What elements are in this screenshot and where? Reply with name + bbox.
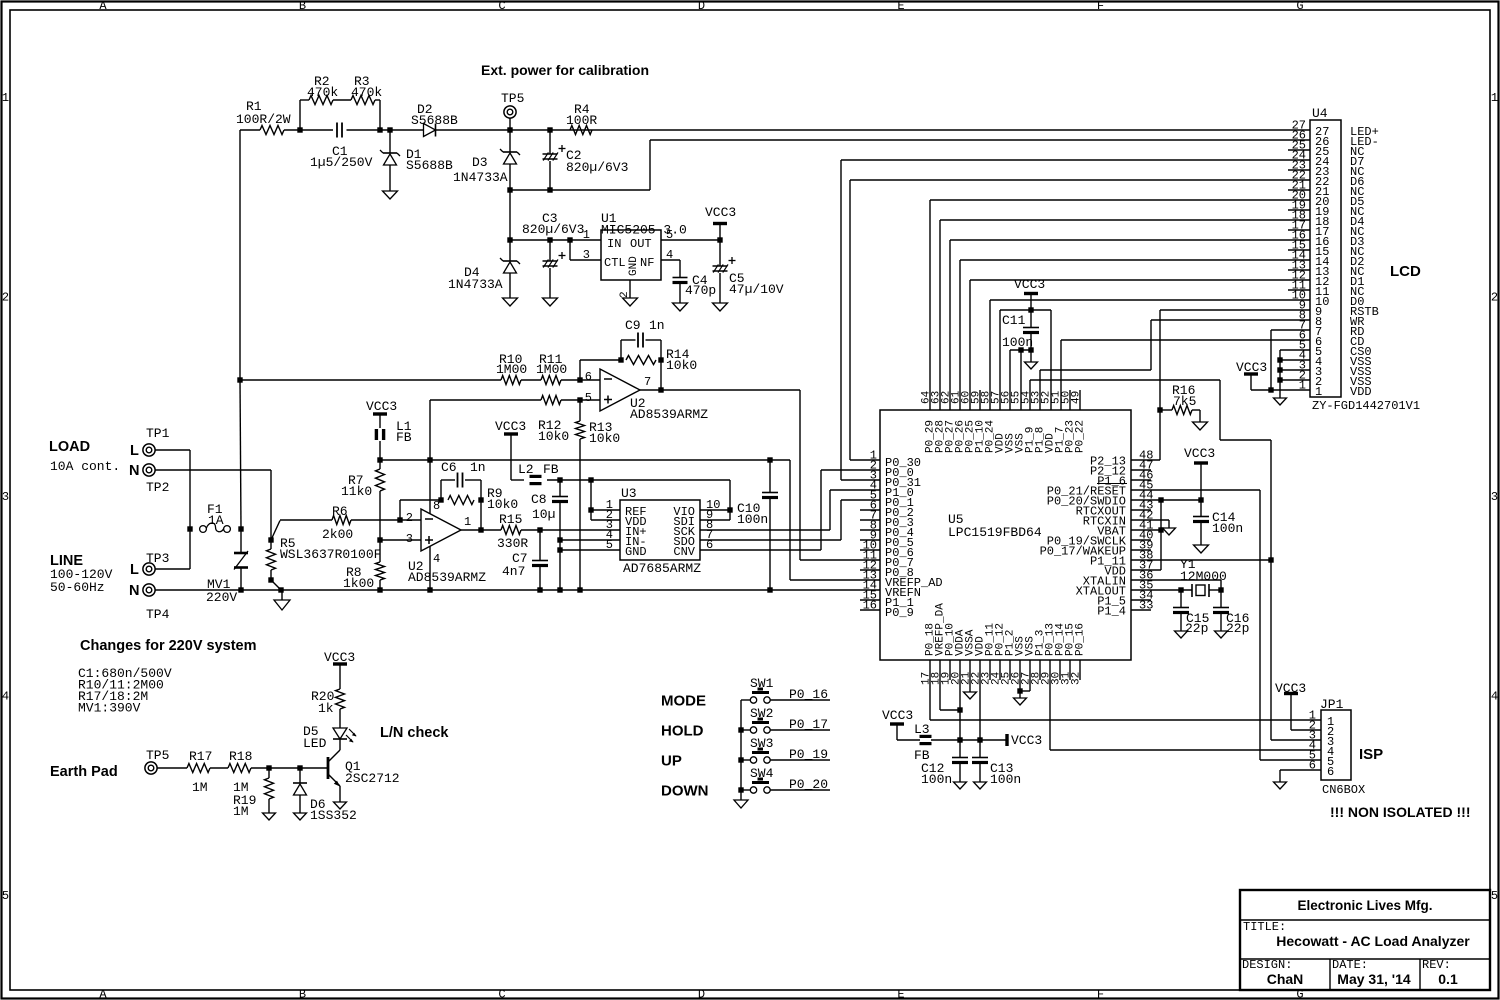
node junction D3 bottom [507,187,512,192]
svg-text:VCC3: VCC3 [882,708,913,723]
svg-text:L: L [130,443,139,459]
connector JP1 ISP [1321,710,1351,780]
svg-text:D: D [698,0,705,13]
svg-text:100n: 100n [921,772,952,787]
svg-text:1: 1 [2,91,9,105]
node junction R19 [266,765,271,770]
svg-text:P0_19: P0_19 [789,747,828,762]
node junction C10 bottom [767,587,772,592]
wire SWDIO VCC3 rail [1131,499,1201,501]
svg-text:REV:: REV: [1422,958,1451,972]
svg-text:F: F [1097,988,1104,1000]
svg-text:VCC3: VCC3 [1184,446,1215,461]
capacitor C9 [620,340,622,360]
inductor L1 ferrite bead [375,429,378,440]
svg-text:22p: 22p [1226,621,1249,636]
resistor R19 [268,768,270,778]
ground at C16 [1215,631,1228,638]
svg-text:1M00: 1M00 [496,362,527,377]
svg-text:6: 6 [1327,765,1334,779]
svg-text:ZY-FGD1442701V1: ZY-FGD1442701V1 [1312,399,1420,413]
node junction VSS pin4 [1277,357,1282,362]
capacitor C1 [336,123,338,138]
svg-text:MODE: MODE [661,693,706,710]
wire P0_18 to ISP pin1 [929,660,931,720]
node junction L1 rail [377,457,382,462]
wire analog supply rail y=740 [960,739,1007,741]
wire VDD U3 [591,519,620,521]
wire TP3 to fuse [155,568,190,570]
wire noninverting input y=400 [430,399,541,401]
svg-text:3: 3 [406,532,413,546]
wire current sense R6 line [280,519,332,521]
node junction VSS pin2 [1277,377,1282,382]
node junction VDD rail [977,737,982,742]
wire P1_11 net [1131,559,1271,561]
wire D3 to C3 rail [509,190,511,240]
wire R2R3 branch [299,100,301,130]
svg-text:820µ/6V3: 820µ/6V3 [566,160,628,175]
resistor R3 [351,96,375,105]
node junction x=550 C2 [547,127,552,132]
ADC U3 AD7685ARMZ [620,500,700,560]
node junction D6 [297,765,302,770]
connector U4 LCD ZY-FGD1442701V1 [1310,120,1341,397]
ground at D1 [383,191,398,199]
svg-text:G: G [1296,0,1303,13]
ground at C5 [713,303,728,311]
svg-text:100R: 100R [566,113,597,128]
node junction VIO SDI [727,507,732,512]
svg-text:10k0: 10k0 [589,431,620,446]
ground at R16 [1193,422,1208,430]
svg-text:CN6BOX: CN6BOX [1322,783,1365,797]
node junction x=390 D1 [387,127,392,132]
svg-text:4: 4 [1491,690,1498,704]
svg-text:TP4: TP4 [146,607,170,622]
node junction C11 gnd right [1028,347,1033,352]
node junction VDDA y=710 [957,707,962,712]
node junction x=1161 y=500 [1158,497,1163,502]
svg-text:CNV: CNV [673,545,695,559]
svg-text:7k5: 7k5 [1173,394,1196,409]
ground at C15 [1175,631,1188,638]
svg-text:U4: U4 [1312,106,1328,121]
capacitor C12 [959,740,961,757]
svg-text:CTL: CTL [604,256,626,270]
svg-text:R17: R17 [189,749,212,764]
wire CNV to MCU [700,549,821,551]
ground at VSS [1019,691,1021,698]
wire regulator input rail y=240 [510,239,601,241]
resistor R4 [570,126,592,135]
svg-text:5: 5 [585,391,592,405]
svg-text:AD8539ARMZ: AD8539ARMZ [630,407,708,422]
capacitor C4 [661,259,680,261]
ground at VSSA [969,660,971,692]
svg-text:E: E [897,988,904,1000]
node junction U2b output [478,527,483,532]
svg-text:TP5: TP5 [501,91,524,106]
node junction VCC3 C5 [717,237,722,242]
U1 pin 2 GND pin [629,280,631,298]
ground at JP1 [1274,782,1287,789]
capacitor C5 electrolytic [719,240,721,266]
svg-text:3: 3 [1491,490,1498,504]
resistor R13 to ground [579,400,581,421]
node junction C7 ground [537,587,542,592]
wire RTCXIN ground [1131,519,1169,521]
capacitor C14 [1200,500,1202,516]
svg-text:TP2: TP2 [146,480,169,495]
node junction R8 ground [377,587,382,592]
diode D6 [299,768,301,783]
svg-text:TP5: TP5 [146,748,169,763]
ground symbol main [281,590,283,600]
svg-text:12M000: 12M000 [1180,569,1227,584]
svg-text:TITLE:: TITLE: [1243,920,1286,934]
svg-text:L2: L2 [518,462,534,477]
wire D4 net [940,219,1310,221]
node junction P1_11 ISP [1268,557,1273,562]
wire R17 R18 [210,767,228,769]
svg-text:2k00: 2k00 [322,527,353,542]
wire SW4 to net P0_20 [770,789,830,791]
svg-text:P0_9: P0_9 [885,606,914,620]
wire rail480 to VIO [591,479,730,481]
node junction U2a inverting input [561,379,600,381]
node junction R1-R2 x=300 [297,127,302,132]
wire CS0 VSS ground chain [1280,349,1310,351]
svg-text:MV1:390V: MV1:390V [78,701,141,716]
svg-text:JP1: JP1 [1320,697,1344,712]
wire D3 net [950,239,1310,241]
wire VREFP riser [789,460,791,580]
op-amp U2a [600,369,640,411]
svg-text:C9: C9 [625,318,641,333]
node junction rail R5 [278,587,283,592]
resistor R6 [332,516,351,525]
wire fused L tap vertical x=240 [239,130,241,380]
wire TP5 to R17 [157,767,187,769]
capacitor C13 [979,740,981,757]
node junction C10 top [767,457,772,462]
node junction VSS [1017,688,1022,693]
svg-text:DOWN: DOWN [661,783,709,800]
node junction VCC3 MCU VDD rail [1028,307,1033,312]
svg-text:1: 1 [464,515,471,529]
svg-text:100n: 100n [990,772,1021,787]
ground at D4 [503,298,518,306]
svg-text:VDD: VDD [1350,385,1372,399]
svg-text:1n: 1n [470,460,486,475]
resistor R12 [541,396,561,405]
regulator U1 MIC5205-3.0 [601,230,661,280]
svg-text:1SS352: 1SS352 [310,808,357,823]
node junction C8 GND pin [557,547,562,552]
node junction C2 bottom [547,187,552,192]
node junction pin4 ground [427,587,432,592]
wire R12 to VCC3 rail [429,400,431,460]
svg-text:50-60Hz: 50-60Hz [50,580,105,595]
node junction XTALIN C16 [1218,587,1223,592]
wire SW2 to net P0_17 [770,729,830,731]
svg-text:LCD: LCD [1390,263,1421,280]
svg-text:E: E [897,0,904,13]
svg-text:470k: 470k [351,85,382,100]
node junction R12 rail [427,457,432,462]
node junction C8 IN- [557,537,562,542]
resistor R10 [501,376,521,385]
svg-text:2: 2 [2,291,9,305]
svg-text:DESIGN:: DESIGN: [1242,958,1292,972]
wire R18 to base [251,767,328,769]
svg-text:5: 5 [1491,889,1498,903]
svg-text:1: 1 [1491,91,1498,105]
svg-text:1M: 1M [192,780,208,795]
ground at Q1 [334,802,347,809]
MCU U5 LPC1519FBD64 [880,410,1131,660]
wire TP2 N to shunt [155,469,271,471]
ground at D6 [294,813,307,820]
capacitor C7 [539,530,541,560]
svg-text:1M00: 1M00 [536,362,567,377]
wire GND pin to C8 [560,549,620,551]
svg-text:UP: UP [661,753,682,770]
svg-text:MIC5205-3.0: MIC5205-3.0 [601,223,687,238]
node junction MV1 bottom [238,587,243,592]
wire VBAT VDD chain [1160,500,1162,570]
wire R20 to VCC3 [339,664,341,689]
wire D6 net [850,179,1310,181]
svg-text:P0_22: P0_22 [1075,420,1087,453]
svg-text:C: C [498,0,505,13]
wire Q1 collector [339,739,341,750]
svg-text:!!! NON ISOLATED !!!: !!! NON ISOLATED !!! [1330,804,1471,820]
capacitor C6 [440,480,442,500]
svg-text:TP3: TP3 [146,551,169,566]
node junction F1 right [238,526,243,531]
resistor R14 [626,356,656,365]
svg-text:22p: 22p [1185,621,1208,636]
svg-text:FB: FB [543,462,559,477]
svg-text:A: A [99,0,107,13]
wire feedback up [579,360,581,380]
title block [1240,890,1490,990]
wire voltage sense to R10 [240,379,501,381]
svg-text:5: 5 [606,538,613,552]
svg-text:AD7685ARMZ: AD7685ARMZ [623,561,701,576]
svg-text:P1_4: P1_4 [1097,605,1126,619]
node junction C6 R9 left [438,497,443,502]
svg-text:0.1: 0.1 [1438,971,1458,987]
wire D5 net [930,199,1310,201]
svg-text:LED: LED [303,736,327,751]
op-amp U2b [421,509,461,551]
node junction x=380 [377,127,382,132]
wire REF [591,509,620,511]
node junction R12 R13 [577,397,582,402]
node junction SW4 common [738,787,743,792]
node junction R15 C7 [537,527,542,532]
wire VCC3 analog rail y=460 [380,459,790,461]
svg-text:1k00: 1k00 [343,576,374,591]
svg-text:5: 5 [2,889,9,903]
node junction C11 gnd left [1018,347,1023,352]
svg-text:S5688B: S5688B [406,158,453,173]
svg-text:GND: GND [625,545,647,559]
diode D1 zener [389,130,391,153]
node junction VSS pin3 [1277,367,1282,372]
wire R10-R11 [521,379,541,381]
transistor Q1 2SC2712 [327,757,330,779]
svg-text:P0_17: P0_17 [789,717,828,732]
svg-text:C8: C8 [531,492,547,507]
wire C11 to VSS pins [1010,349,1031,351]
svg-text:Changes for 220V system: Changes for 220V system [80,638,257,654]
wire RSTB net [1160,309,1310,311]
node junction VDDA rail [957,737,962,742]
svg-text:VCC3: VCC3 [1014,277,1045,292]
svg-text:L: L [130,562,139,578]
U2 pin4 supply stub [429,546,431,590]
svg-text:470k: 470k [307,85,338,100]
node junction sense tap y=380 [237,377,242,382]
wire RESET to ISP [1131,489,1260,491]
svg-text:C11: C11 [1002,313,1026,328]
wire D2 net [960,259,1310,261]
ground at C4 [673,303,688,311]
svg-text:4: 4 [2,690,9,704]
capacitor C16 [1220,590,1222,607]
node junction SW3 common [738,757,743,762]
overline RESET [1097,483,1127,485]
node junction feedback left [618,357,623,362]
svg-text:7: 7 [644,375,651,389]
resistor R16 pulldown [1157,407,1162,412]
ground at C13 [974,782,987,789]
svg-text:820µ/6V3: 820µ/6V3 [522,222,584,237]
node junction C8 ground rail [557,587,562,592]
wire switch common [740,700,742,800]
svg-text:10µ: 10µ [532,507,555,522]
svg-text:U3: U3 [621,486,637,501]
svg-text:3: 3 [583,248,590,262]
svg-text:10k0: 10k0 [666,358,697,373]
ground at C3 [543,298,558,306]
node junction XTALOUT C15 [1178,587,1183,592]
capacitor C8 [559,480,561,496]
ground at C11 [1030,350,1032,362]
power VCC3 right of C13 [1005,734,1008,746]
node junction R7 R8 pin3 [377,537,382,542]
svg-text:100n: 100n [1212,521,1243,536]
node junction x=570 y=240 [567,237,572,242]
svg-text:Ext. power for calibration: Ext. power for calibration [481,62,649,78]
inductor L2 ferrite bead [511,479,524,481]
wire D0 net [990,299,1310,301]
diode D5 LED [333,728,347,739]
svg-text:330R: 330R [497,536,528,551]
svg-text:LPC1519FBD64: LPC1519FBD64 [948,525,1042,540]
resistor R8 bias lower [376,562,385,580]
wire SCK to MCU [700,529,830,531]
svg-text:2SC2712: 2SC2712 [345,771,400,786]
wire VDD rail y=310 [1000,309,1051,311]
svg-text:ISP: ISP [1359,746,1383,763]
svg-text:B: B [299,988,306,1000]
wire D7 net [841,159,1310,161]
svg-text:C: C [498,988,505,1000]
svg-text:1N4733A: 1N4733A [453,170,508,185]
svg-text:47µ/10V: 47µ/10V [729,282,784,297]
wire VBAT [1131,529,1161,531]
resistor R7 bias upper [376,469,385,491]
svg-text:NF: NF [640,256,654,270]
svg-text:OUT: OUT [630,237,652,251]
svg-text:100R/2W: 100R/2W [236,112,291,127]
svg-text:R6: R6 [332,504,348,519]
node junction x=550 y=240 [547,237,552,242]
svg-text:Earth Pad: Earth Pad [50,764,118,780]
svg-text:B: B [299,0,306,13]
resistor R1 [260,126,284,135]
ground at R19 [263,813,276,820]
node junction feedback right [658,357,663,362]
wire raw negative rail y=190 to LED- [510,189,650,191]
diode D3 zener [509,130,511,152]
wire RD tie to VDD [1271,329,1310,331]
capacitor C11 [1030,310,1032,327]
svg-text:GND: GND [628,256,640,276]
wire D1 net [970,279,1310,281]
resistor R17 [187,764,210,773]
svg-text:D: D [698,988,705,1000]
node junction SW2 common [738,727,743,732]
wire VDDA VREFP_DA [959,660,961,740]
wire IN- to C8 [560,539,620,541]
wire ADC supply riser [590,480,592,520]
svg-text:A: A [99,988,107,1000]
node junction U2a output [658,387,663,392]
svg-text:S5688B: S5688B [411,113,458,128]
capacitor C10 [769,460,771,492]
wire SW3 to net P0_19 [770,759,830,761]
wire WR net [1151,319,1310,321]
wire main raw supply y=130 [240,129,260,131]
svg-text:10k0: 10k0 [538,429,569,444]
capacitor C2 electrolytic [549,130,551,154]
node junction C14 [1198,497,1203,502]
wire CD net [1061,339,1310,341]
resistor R2 [309,96,333,105]
node junction RD VDD [1268,387,1273,392]
wire ground rail y=590 [155,589,880,591]
svg-text:FB: FB [396,430,412,445]
svg-text:AD8539ARMZ: AD8539ARMZ [408,570,486,585]
svg-text:11k0: 11k0 [341,484,372,499]
ground at U1 [623,298,638,306]
wire pin3 noninverting [380,539,421,541]
wire U2a output to P0_7 [640,389,800,391]
svg-text:10k0: 10k0 [487,497,518,512]
svg-text:N: N [129,463,139,479]
diode D2 [422,129,424,131]
svg-text:1M: 1M [233,804,249,819]
svg-text:TP1: TP1 [146,426,170,441]
ground at LCD VSS [1274,398,1287,405]
svg-text:1N4733A: 1N4733A [448,277,503,292]
